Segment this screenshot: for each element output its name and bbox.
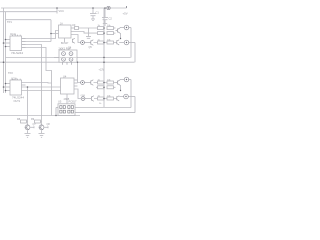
svg-text:TP1: TP1 xyxy=(7,20,12,24)
terminal out ch2 xyxy=(124,40,129,45)
svg-text:C2: C2 xyxy=(109,17,113,21)
diode D1 xyxy=(75,27,79,30)
svg-text:CN3: CN3 xyxy=(81,95,86,97)
svg-text:U2A: U2A xyxy=(11,76,17,80)
wire U1 output 3 long vertical xyxy=(22,45,42,125)
wire mid line lower xyxy=(0,61,135,63)
wire U2 output 2 to U4 xyxy=(22,86,61,88)
wire right rail bottom block 2 xyxy=(134,97,136,113)
wire top rail VCC1 xyxy=(1,7,127,9)
wire U2 left pin 1 xyxy=(6,83,11,85)
wire right rail bottom block xyxy=(130,80,132,108)
ground C1 xyxy=(91,18,95,20)
ground Q7 xyxy=(25,133,31,135)
transistor Q1 symbol xyxy=(117,29,119,33)
wire J1 to Q5 xyxy=(84,42,90,44)
transistor Q2 symbol xyxy=(116,40,118,44)
wire term1 right stub xyxy=(129,27,131,29)
wire U2 output 1 xyxy=(22,82,52,85)
wire terminal J2 to rail xyxy=(84,82,90,84)
wire U4 pin1 to terminal J2 xyxy=(74,79,78,81)
junction rail ch1 xyxy=(103,27,105,29)
op-amp U1 box xyxy=(10,36,22,51)
transistor Q1 emitter chain xyxy=(120,34,122,39)
junction rail ch3b xyxy=(103,87,105,89)
resistor R9 base Q8 xyxy=(35,120,41,123)
terminal out ch3 xyxy=(124,77,129,82)
labels xyxy=(7,9,128,126)
junction U2 pin3 rail xyxy=(5,90,7,92)
capacitor C3 lead xyxy=(88,28,90,37)
svg-text:1A: 1A xyxy=(60,23,63,26)
svg-text:+5V: +5V xyxy=(123,12,128,16)
wire terminal J3 to rail xyxy=(85,98,91,100)
capacitor C1 lead xyxy=(92,8,94,14)
wire U1 output 2 xyxy=(22,41,52,43)
junction rail ch2 xyxy=(103,42,105,44)
svg-text:BC547: BC547 xyxy=(61,42,69,45)
junction C2 top xyxy=(104,7,106,9)
wire row mid ext xyxy=(114,32,116,34)
junction U1 pin2 rail xyxy=(3,42,5,44)
transistor Q5b symbol xyxy=(90,81,92,85)
svg-text:OUT1: OUT1 xyxy=(14,100,21,103)
svg-text:U5: U5 xyxy=(58,100,62,104)
wire U4 pin4 stub xyxy=(74,85,78,87)
wire U5 out lower xyxy=(75,112,135,114)
opto U5 box xyxy=(58,104,75,116)
junction U2 pin2 rail xyxy=(3,86,5,88)
wire mid line upper xyxy=(6,57,131,59)
junction Q7 branch xyxy=(27,86,29,88)
wire Q8 emitter xyxy=(41,130,43,133)
resistor R6 xyxy=(98,97,105,100)
driver U3 box xyxy=(59,25,72,38)
ground C2 xyxy=(103,23,107,25)
relay K1 contact circle 3 xyxy=(62,57,66,61)
wire left rail A xyxy=(3,8,5,93)
transistor Q3 cluster bottom-right ch1 collector xyxy=(121,79,125,81)
terminal J3 xyxy=(81,97,85,101)
svg-text:C1: C1 xyxy=(96,11,100,15)
terminal J2 xyxy=(81,81,85,85)
junction node A xyxy=(50,33,52,35)
junction U1 pin3 rail xyxy=(5,46,7,48)
svg-text:TP2: TP2 xyxy=(8,71,13,75)
capacitor C2 lower lead xyxy=(104,20,106,24)
svg-text:74LS244: 74LS244 xyxy=(12,96,24,100)
svg-text:VCC: VCC xyxy=(59,9,65,13)
capacitor C3 plates xyxy=(86,36,91,38)
transistor Q3 symbol xyxy=(117,81,119,85)
wire U3 pin3 to terminal xyxy=(71,35,81,43)
junction rail ch4 xyxy=(103,98,105,100)
relay K1 contact circle 2 xyxy=(69,52,73,56)
transistor Q8 internals xyxy=(40,126,42,130)
terminal out ch4 xyxy=(124,94,129,99)
wire term3 right stub xyxy=(128,79,131,81)
junction VCC tap xyxy=(56,7,58,9)
U1 pin stubs right xyxy=(22,39,26,48)
svg-text:Q5: Q5 xyxy=(89,46,93,49)
wire U1 left pin 3 xyxy=(6,46,11,48)
wire U3 pin2 xyxy=(71,32,104,34)
pin number specks U1 xyxy=(12,35,20,80)
junction dots xyxy=(3,7,122,116)
wire term2 right stub xyxy=(129,42,135,44)
terminal T1 on rail xyxy=(107,6,110,9)
wire right rail top block 2 xyxy=(134,43,136,63)
relay K1 bottom pin stubs xyxy=(63,62,72,65)
relay K1 box xyxy=(59,50,77,62)
wire U5 left pin drop xyxy=(55,108,57,116)
power symbol end tick xyxy=(126,6,128,8)
wire pullup corner xyxy=(50,20,52,42)
svg-text:PC817: PC817 xyxy=(69,100,77,104)
terminal center dots xyxy=(82,27,127,99)
wire pullup line xyxy=(6,19,52,21)
wire row ch1 ext xyxy=(114,27,116,29)
wire U1 output 4 chain xyxy=(22,48,52,116)
terminal J1 xyxy=(81,41,85,45)
wire U4 bottom stub xyxy=(66,94,68,99)
wire Q7 base resistor leads xyxy=(27,121,28,123)
capacitor C1 plates xyxy=(90,13,96,15)
wire rail mid vertical xyxy=(103,8,105,107)
wire U2 left pin 2 xyxy=(4,86,11,88)
wire U3 input xyxy=(51,33,59,35)
wire Q5 to rail xyxy=(94,42,117,44)
capacitor C1 lower lead xyxy=(92,16,94,19)
transistor Q7 circle xyxy=(25,125,30,130)
wire U1 left pin 1 xyxy=(6,39,11,41)
svg-text:Q6: Q6 xyxy=(68,47,72,50)
opto U5 internals xyxy=(60,106,74,113)
transistor Q8 circle xyxy=(39,125,44,130)
wire U3 pin1 cont xyxy=(79,27,105,29)
transistor Q5 symbol xyxy=(90,41,92,45)
wire U5 top stub xyxy=(66,99,68,104)
wire U2 output 3 xyxy=(22,90,61,92)
wire U1 output 1 step xyxy=(22,31,59,39)
transistor Q1 cluster top-right ch1 collector xyxy=(121,27,125,29)
junction U5 gnd line xyxy=(55,115,56,116)
wire term4 right stub xyxy=(128,96,135,98)
wire U4 pin2 stub xyxy=(74,82,78,84)
terminal T1 center dot xyxy=(108,7,109,8)
svg-text:U3: U3 xyxy=(72,23,76,27)
transistor Q5c symbol xyxy=(90,97,92,101)
relay K1 inner marks xyxy=(63,53,72,61)
relay K1 contact circle 1 xyxy=(62,52,66,56)
terminal out ch1 xyxy=(124,25,129,30)
wire U3 bottom stub xyxy=(64,38,66,42)
transistor Q4 symbol xyxy=(116,96,118,100)
junction Q1 emitter xyxy=(120,38,121,39)
wire U5 left pin xyxy=(56,107,58,109)
wire left rail B xyxy=(5,12,7,93)
capacitor C2 lead xyxy=(104,8,106,18)
junction U1 pin1 rail xyxy=(5,39,7,41)
wire Q8 right stub xyxy=(44,126,48,128)
wire U4 pin3 to terminal J3 xyxy=(74,89,81,99)
junction C1 top xyxy=(92,7,94,9)
resistor R3 xyxy=(98,41,105,44)
transistor Q6 symbol xyxy=(72,39,74,43)
relay K1 contact circle 4 xyxy=(69,57,73,61)
capacitor C2 plates xyxy=(102,17,108,19)
transistor Q7 internals xyxy=(26,126,28,130)
wire right rail top block xyxy=(130,28,132,58)
resistor R8 base Q7 xyxy=(21,120,27,123)
svg-text:1k: 1k xyxy=(99,103,102,105)
ground Q8 xyxy=(39,133,45,135)
wire row mid2 xyxy=(96,86,104,88)
wire Q8 base resistor leads xyxy=(41,121,42,123)
wire second top rail xyxy=(0,11,57,13)
resistor R4 xyxy=(98,81,105,84)
svg-text:U1A: U1A xyxy=(10,32,16,36)
wire K1 left stub xyxy=(54,57,59,59)
junction Q3 emitter xyxy=(120,90,121,91)
driver U4 box xyxy=(61,78,75,94)
svg-text:74LS244: 74LS244 xyxy=(11,51,23,55)
wire Q7 emitter xyxy=(27,130,29,133)
wire Q7 collector xyxy=(27,87,29,125)
svg-text:+12V: +12V xyxy=(99,69,105,72)
resistor R5 xyxy=(98,86,105,89)
wire vcc drop to U3 xyxy=(56,8,58,14)
transistor Q3 emitter chain xyxy=(120,86,122,91)
resistor R2 xyxy=(98,32,105,35)
wire U3 pin1 xyxy=(71,27,75,29)
op-amp U2 box xyxy=(10,80,22,95)
wire bottom line xyxy=(0,115,80,117)
junction U2 pin1 rail xyxy=(5,83,7,85)
svg-text:2k2: 2k2 xyxy=(59,47,64,50)
junction rail ch1b xyxy=(103,32,105,34)
wire through K1 xyxy=(59,57,77,59)
svg-text:Q8: Q8 xyxy=(47,123,51,126)
wire U5 out upper xyxy=(75,107,131,109)
resistor R1 xyxy=(98,27,105,30)
wire U1 left pin 2 xyxy=(4,42,11,44)
wire U2 left pin 3 xyxy=(6,90,11,92)
svg-text:U4: U4 xyxy=(63,75,67,79)
junction rail ch3 xyxy=(103,82,105,84)
wire Q7 right stub xyxy=(30,126,34,128)
